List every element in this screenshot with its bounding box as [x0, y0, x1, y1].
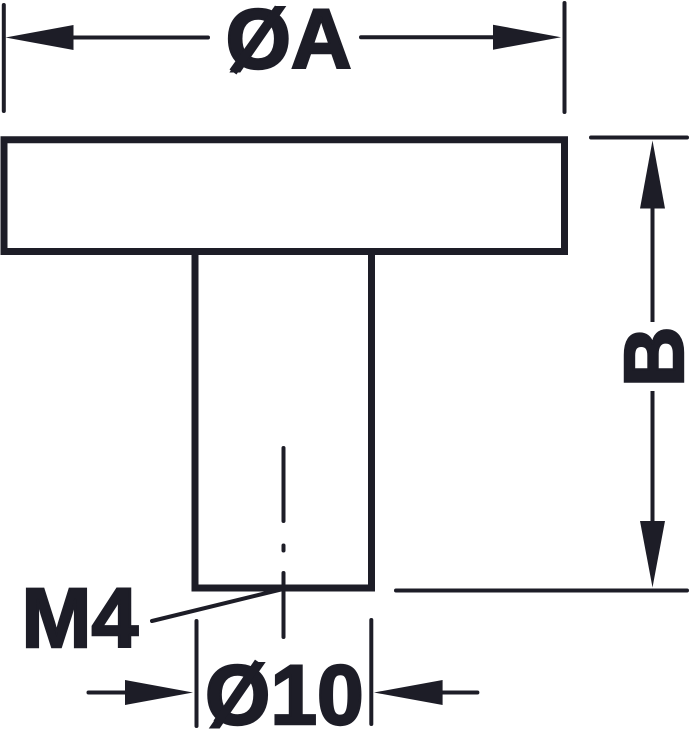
diameter slash extension (dim 10): [217, 662, 259, 723]
dimension tail right (dim 10): [442, 691, 477, 695]
extension line bottom (dim B): [396, 589, 687, 593]
dimension line B lower segment: [651, 391, 655, 523]
extension line right (dim 10): [369, 620, 373, 724]
svg-text:ØA: ØA: [226, 0, 352, 86]
svg-text:M4: M4: [22, 571, 139, 665]
svg-text:B: B: [607, 326, 689, 387]
arrowhead B up: [640, 141, 665, 209]
diameter slash extension (dim A): [233, 8, 279, 72]
centerline dot: [282, 546, 286, 551]
arrowhead B down: [640, 521, 665, 588]
extension line left (dim 10): [195, 621, 199, 726]
leader line M4: [152, 589, 283, 621]
dimension line B upper segment: [651, 206, 655, 322]
knob stem outline: [195, 254, 372, 588]
dimension tail left (dim 10): [89, 691, 127, 695]
arrowhead 10 right: [374, 680, 443, 705]
arrowhead A right: [493, 25, 561, 50]
svg-text:Ø10: Ø10: [205, 648, 364, 730]
extension line top (dim B): [591, 136, 687, 140]
extension line right (dim A): [563, 3, 567, 112]
arrowhead 10 left: [125, 680, 193, 705]
extension line left (dim A): [2, 5, 6, 111]
knob head outline: [4, 140, 565, 252]
dimension line A right segment: [361, 35, 494, 39]
centerline dash 1: [282, 448, 286, 521]
arrowhead A left: [6, 25, 74, 50]
dimension line A left segment: [72, 36, 208, 40]
centerline dash 2: [282, 573, 286, 637]
